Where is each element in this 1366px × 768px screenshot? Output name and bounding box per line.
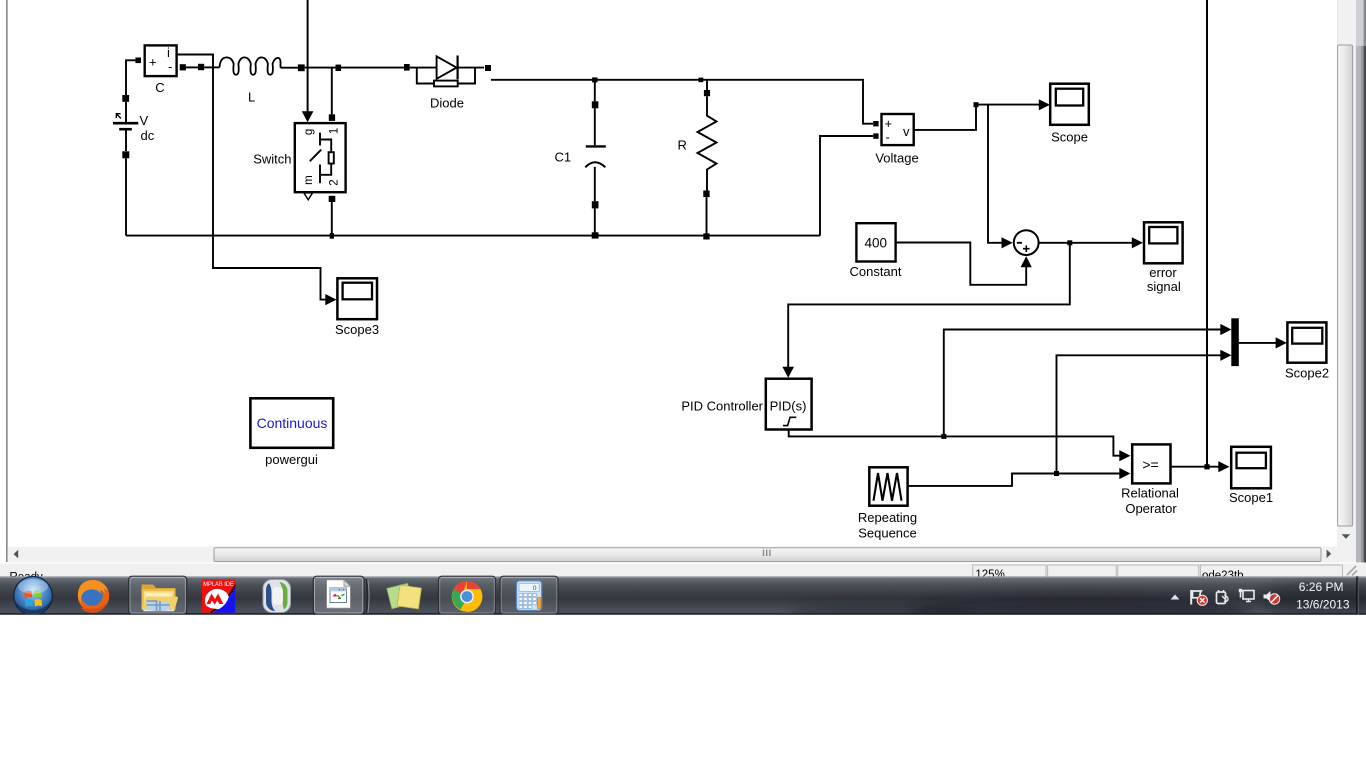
- node square at switch branch: [336, 65, 342, 71]
- sum block: [1014, 230, 1039, 255]
- resize grip: [1347, 566, 1357, 576]
- vertical scrollbar track: [1337, 0, 1354, 547]
- junction dot sum output: [1067, 240, 1072, 245]
- horizontal scrollbar track: [8, 547, 1354, 563]
- capacitor C1: [585, 108, 606, 201]
- status bar: [0, 563, 1366, 577]
- svg-text:0: 0: [533, 585, 537, 592]
- svg-text:>=: >=: [1142, 457, 1158, 473]
- svg-text:Scope3: Scope3: [335, 322, 379, 337]
- status panel empty 2: [1118, 565, 1199, 579]
- repeating sequence block: [869, 467, 907, 505]
- svg-text:g: g: [303, 129, 315, 135]
- svg-text:Continuous: Continuous: [257, 415, 328, 431]
- port pad switch 2: [329, 196, 336, 202]
- output node wire to voltage +: [491, 80, 873, 124]
- vertical scrollbar thumb: [1338, 45, 1353, 526]
- arrowhead into PID: [782, 367, 794, 378]
- sticky notes icon: [387, 583, 422, 609]
- model window left border: [6, 0, 8, 562]
- battery Vdc: [113, 102, 138, 151]
- port pad C1 bottom: [592, 201, 599, 208]
- show desktop separator: [1356, 576, 1358, 614]
- port pad battery -: [122, 151, 129, 158]
- svg-text:-: -: [168, 59, 172, 74]
- arrowhead into sum plus: [1021, 256, 1032, 267]
- node square R top: [699, 78, 704, 83]
- vertical scrollbar down button: [1337, 527, 1354, 547]
- port pad diode left: [404, 64, 410, 71]
- svg-text:-: -: [886, 130, 890, 145]
- svg-text:13/6/2013: 13/6/2013: [1296, 597, 1350, 611]
- port pad L left: [198, 64, 204, 70]
- arrowhead into Scope3: [325, 294, 336, 305]
- tray power plug icon: [1217, 590, 1229, 604]
- tray speaker muted icon: [1264, 591, 1280, 604]
- wire to Scope: [976, 104, 1039, 106]
- wire relational output to Scope1: [1171, 466, 1219, 468]
- svg-text:Relational: Relational: [1121, 486, 1179, 501]
- tray expand triangle: [1171, 595, 1180, 600]
- white area below taskbar: [0, 615, 1366, 768]
- tray flag icon: [1191, 590, 1207, 605]
- wire battery- to ground bus: [125, 158, 127, 235]
- explorer taskbar button: [129, 576, 187, 614]
- label Relational Operator: [1121, 486, 1179, 517]
- svg-text:Voltage: Voltage: [875, 151, 918, 166]
- wire current i to Scope3: [177, 55, 326, 300]
- svg-text:PID Controller: PID Controller: [681, 399, 763, 414]
- svg-text:Switch: Switch: [253, 152, 291, 167]
- powergui block: [250, 398, 333, 448]
- svg-text:v: v: [903, 124, 910, 139]
- port pad voltage -: [873, 133, 878, 138]
- svg-text:1: 1: [329, 128, 341, 134]
- wire branch down to switch port 1: [331, 69, 333, 115]
- voltage measurement block: [882, 114, 914, 145]
- node square C1 top: [592, 77, 597, 82]
- svg-text:Scope: Scope: [1051, 130, 1088, 145]
- junction dot: [974, 102, 979, 107]
- wire switch2 to bus: [331, 202, 333, 236]
- inductor L: [204, 57, 298, 74]
- calculator taskbar button: [500, 576, 558, 614]
- taskbar background: [0, 576, 1366, 614]
- arrowhead into relational op 1: [1119, 450, 1130, 461]
- status panel empty 1: [1048, 565, 1117, 579]
- start orb: [14, 577, 53, 616]
- svg-text:dc: dc: [141, 128, 155, 143]
- right window frame: [1354, 0, 1366, 563]
- svg-text:Sequence: Sequence: [858, 526, 917, 541]
- chrome icon: [452, 581, 483, 612]
- horizontal scrollbar left button: [14, 550, 19, 559]
- svg-text:PID(s): PID(s): [770, 399, 807, 414]
- junction dot PID output: [941, 434, 946, 439]
- svg-text:+: +: [149, 55, 157, 70]
- arrowhead into switch gate: [302, 111, 314, 122]
- long gate wire up right side: [1206, 0, 1208, 467]
- port pad switch 1: [329, 114, 335, 121]
- model file taskbar button: [313, 576, 369, 614]
- horizontal scrollbar right button: [1327, 550, 1332, 559]
- wire C1 bottom to bus: [594, 208, 596, 235]
- svg-text:m: m: [303, 175, 315, 185]
- constant block: [856, 223, 895, 261]
- wire C- to L: [186, 66, 199, 68]
- status panel 125%: [973, 565, 1046, 581]
- Scope2 block: [1287, 322, 1326, 362]
- ground bus wire: [126, 235, 820, 237]
- wire branch down to sum: [988, 105, 1002, 243]
- horizontal scrollbar thumb: [214, 548, 1321, 562]
- chrome taskbar button: [439, 576, 496, 614]
- wire bus up to voltage -: [820, 136, 873, 236]
- port pad diode right: [485, 65, 491, 71]
- resistor R: [698, 96, 717, 190]
- svg-text:400: 400: [865, 236, 888, 251]
- Scope3 block: [337, 278, 377, 319]
- calculator icon: [517, 581, 542, 611]
- diode: [410, 56, 484, 87]
- firefox icon: [78, 580, 110, 613]
- node square R bottom: [703, 233, 709, 239]
- Scope block: [1050, 84, 1089, 125]
- svg-text:6:26 PM: 6:26 PM: [1299, 580, 1344, 594]
- svg-text:L: L: [248, 90, 255, 105]
- svg-text:Scope2: Scope2: [1285, 366, 1329, 381]
- current measurement C: [145, 45, 177, 76]
- svg-text:Scope1: Scope1: [1229, 490, 1273, 505]
- hollow arrow m output: [304, 193, 313, 200]
- tray network icon: [1239, 589, 1254, 602]
- svg-text:MPLAB IDE: MPLAB IDE: [203, 581, 234, 588]
- status panel ode23tb: [1200, 565, 1342, 582]
- wire error to PID: [788, 243, 1070, 367]
- node square C1 bottom: [592, 232, 599, 238]
- svg-text:R: R: [678, 138, 687, 153]
- Scope1 block: [1231, 447, 1271, 489]
- port pad L right: [298, 64, 305, 71]
- wire mux to Scope2: [1239, 342, 1276, 344]
- relational operator block: [1132, 444, 1170, 483]
- arrowhead into sum minus: [1002, 237, 1013, 248]
- error signal scope block: [1144, 222, 1183, 263]
- port pad voltage +: [873, 121, 878, 126]
- arrowhead into relational op 2: [1119, 468, 1130, 479]
- wire sum output to error scope: [1039, 242, 1132, 244]
- arrowhead into mux 2: [1220, 350, 1231, 361]
- wire PID output: [789, 430, 1120, 456]
- switch block: [295, 123, 346, 192]
- port pad C+: [135, 58, 141, 64]
- thumb grip: [764, 550, 770, 557]
- node square switch2 bus: [330, 233, 334, 239]
- port pad C1 top: [592, 101, 599, 108]
- label Repeating Sequence: [858, 510, 917, 541]
- svg-text:signal: signal: [1147, 279, 1181, 294]
- mplab icon: [202, 580, 235, 613]
- arrowhead into Scope: [1039, 99, 1050, 110]
- wire C1 top: [594, 80, 596, 101]
- junction dot repeating branch: [1054, 471, 1059, 476]
- svg-text:C1: C1: [555, 150, 572, 165]
- wire repeating sequence output: [908, 474, 1120, 486]
- svg-text:Repeating: Repeating: [858, 510, 917, 525]
- wire voltage output: [914, 105, 976, 130]
- PID controller block: [766, 379, 812, 430]
- arrowhead into Scope2: [1276, 337, 1287, 348]
- svg-text:powergui: powergui: [265, 452, 318, 467]
- svg-text:Operator: Operator: [1125, 501, 1177, 516]
- svg-text:2: 2: [328, 179, 340, 185]
- arrowhead into error scope: [1132, 237, 1143, 248]
- port pad C-: [180, 64, 186, 70]
- label error signal: [1147, 265, 1181, 294]
- port pad battery +: [122, 95, 129, 102]
- wire constant to sum plus: [896, 243, 1027, 285]
- svg-text:Constant: Constant: [849, 264, 901, 279]
- arrowhead into mux 1: [1220, 324, 1231, 335]
- blue-green squircle icon: [263, 580, 291, 613]
- svg-text:error: error: [1149, 265, 1177, 280]
- model file icon: [327, 580, 351, 609]
- gate wire from top of screen: [307, 0, 309, 112]
- svg-text:i: i: [167, 45, 170, 60]
- junction dot gate signal: [1204, 464, 1209, 469]
- svg-text:Diode: Diode: [430, 96, 464, 111]
- port pad R top: [704, 90, 710, 96]
- wire C+ to battery: [126, 60, 135, 95]
- svg-text:C: C: [155, 80, 164, 95]
- wire PID branch up to mux: [944, 330, 1222, 437]
- arrowhead into Scope1: [1218, 461, 1229, 472]
- wire R bottom to bus: [706, 197, 708, 236]
- svg-text:V: V: [140, 113, 149, 128]
- wire branch up to mux 2: [1057, 355, 1222, 473]
- wire R top: [706, 80, 708, 90]
- port pad R bottom: [703, 191, 709, 198]
- label V dc: [140, 113, 155, 143]
- wire L to diode: [305, 67, 405, 69]
- explorer folder icon: [142, 585, 178, 612]
- mux block: [1231, 318, 1239, 366]
